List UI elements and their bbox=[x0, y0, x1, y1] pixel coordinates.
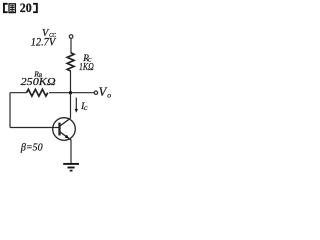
Vo terminal bbox=[94, 91, 97, 94]
svg-text:1KΩ: 1KΩ bbox=[79, 61, 94, 73]
wire left vertical bbox=[9, 93, 11, 128]
wire base bbox=[10, 127, 59, 129]
resistor Rc bbox=[67, 53, 74, 71]
svg-text:250KΩ: 250KΩ bbox=[21, 77, 56, 88]
wire emitter to ground bbox=[70, 140, 72, 164]
svg-text:C: C bbox=[84, 106, 88, 112]
junction node bbox=[69, 91, 72, 94]
svg-text:12.7V: 12.7V bbox=[31, 37, 57, 49]
svg-text:o: o bbox=[107, 91, 111, 100]
wire junction to collector bbox=[70, 93, 72, 119]
title bracket left 【 bbox=[3, 3, 8, 13]
resistor RB bbox=[27, 89, 48, 96]
transistor emitter diagonal with arrow bbox=[60, 132, 71, 140]
wire junction to Vo bbox=[71, 92, 95, 94]
current arrow Ic bbox=[75, 98, 77, 111]
title glyph 圖 bbox=[9, 4, 15, 13]
transistor base bar bbox=[58, 123, 60, 136]
Vcc terminal bbox=[69, 35, 73, 39]
svg-text:20: 20 bbox=[20, 1, 32, 15]
svg-text:β=50: β=50 bbox=[20, 143, 43, 154]
transistor collector diagonal bbox=[60, 118, 71, 126]
resistor RB leads bbox=[10, 92, 27, 94]
ground bbox=[63, 164, 79, 171]
wire Vcc to Rc bbox=[70, 38, 72, 53]
wire Rc to junction bbox=[70, 71, 72, 93]
transistor Q1 circle bbox=[53, 118, 76, 141]
title bracket right 】 bbox=[33, 3, 38, 13]
